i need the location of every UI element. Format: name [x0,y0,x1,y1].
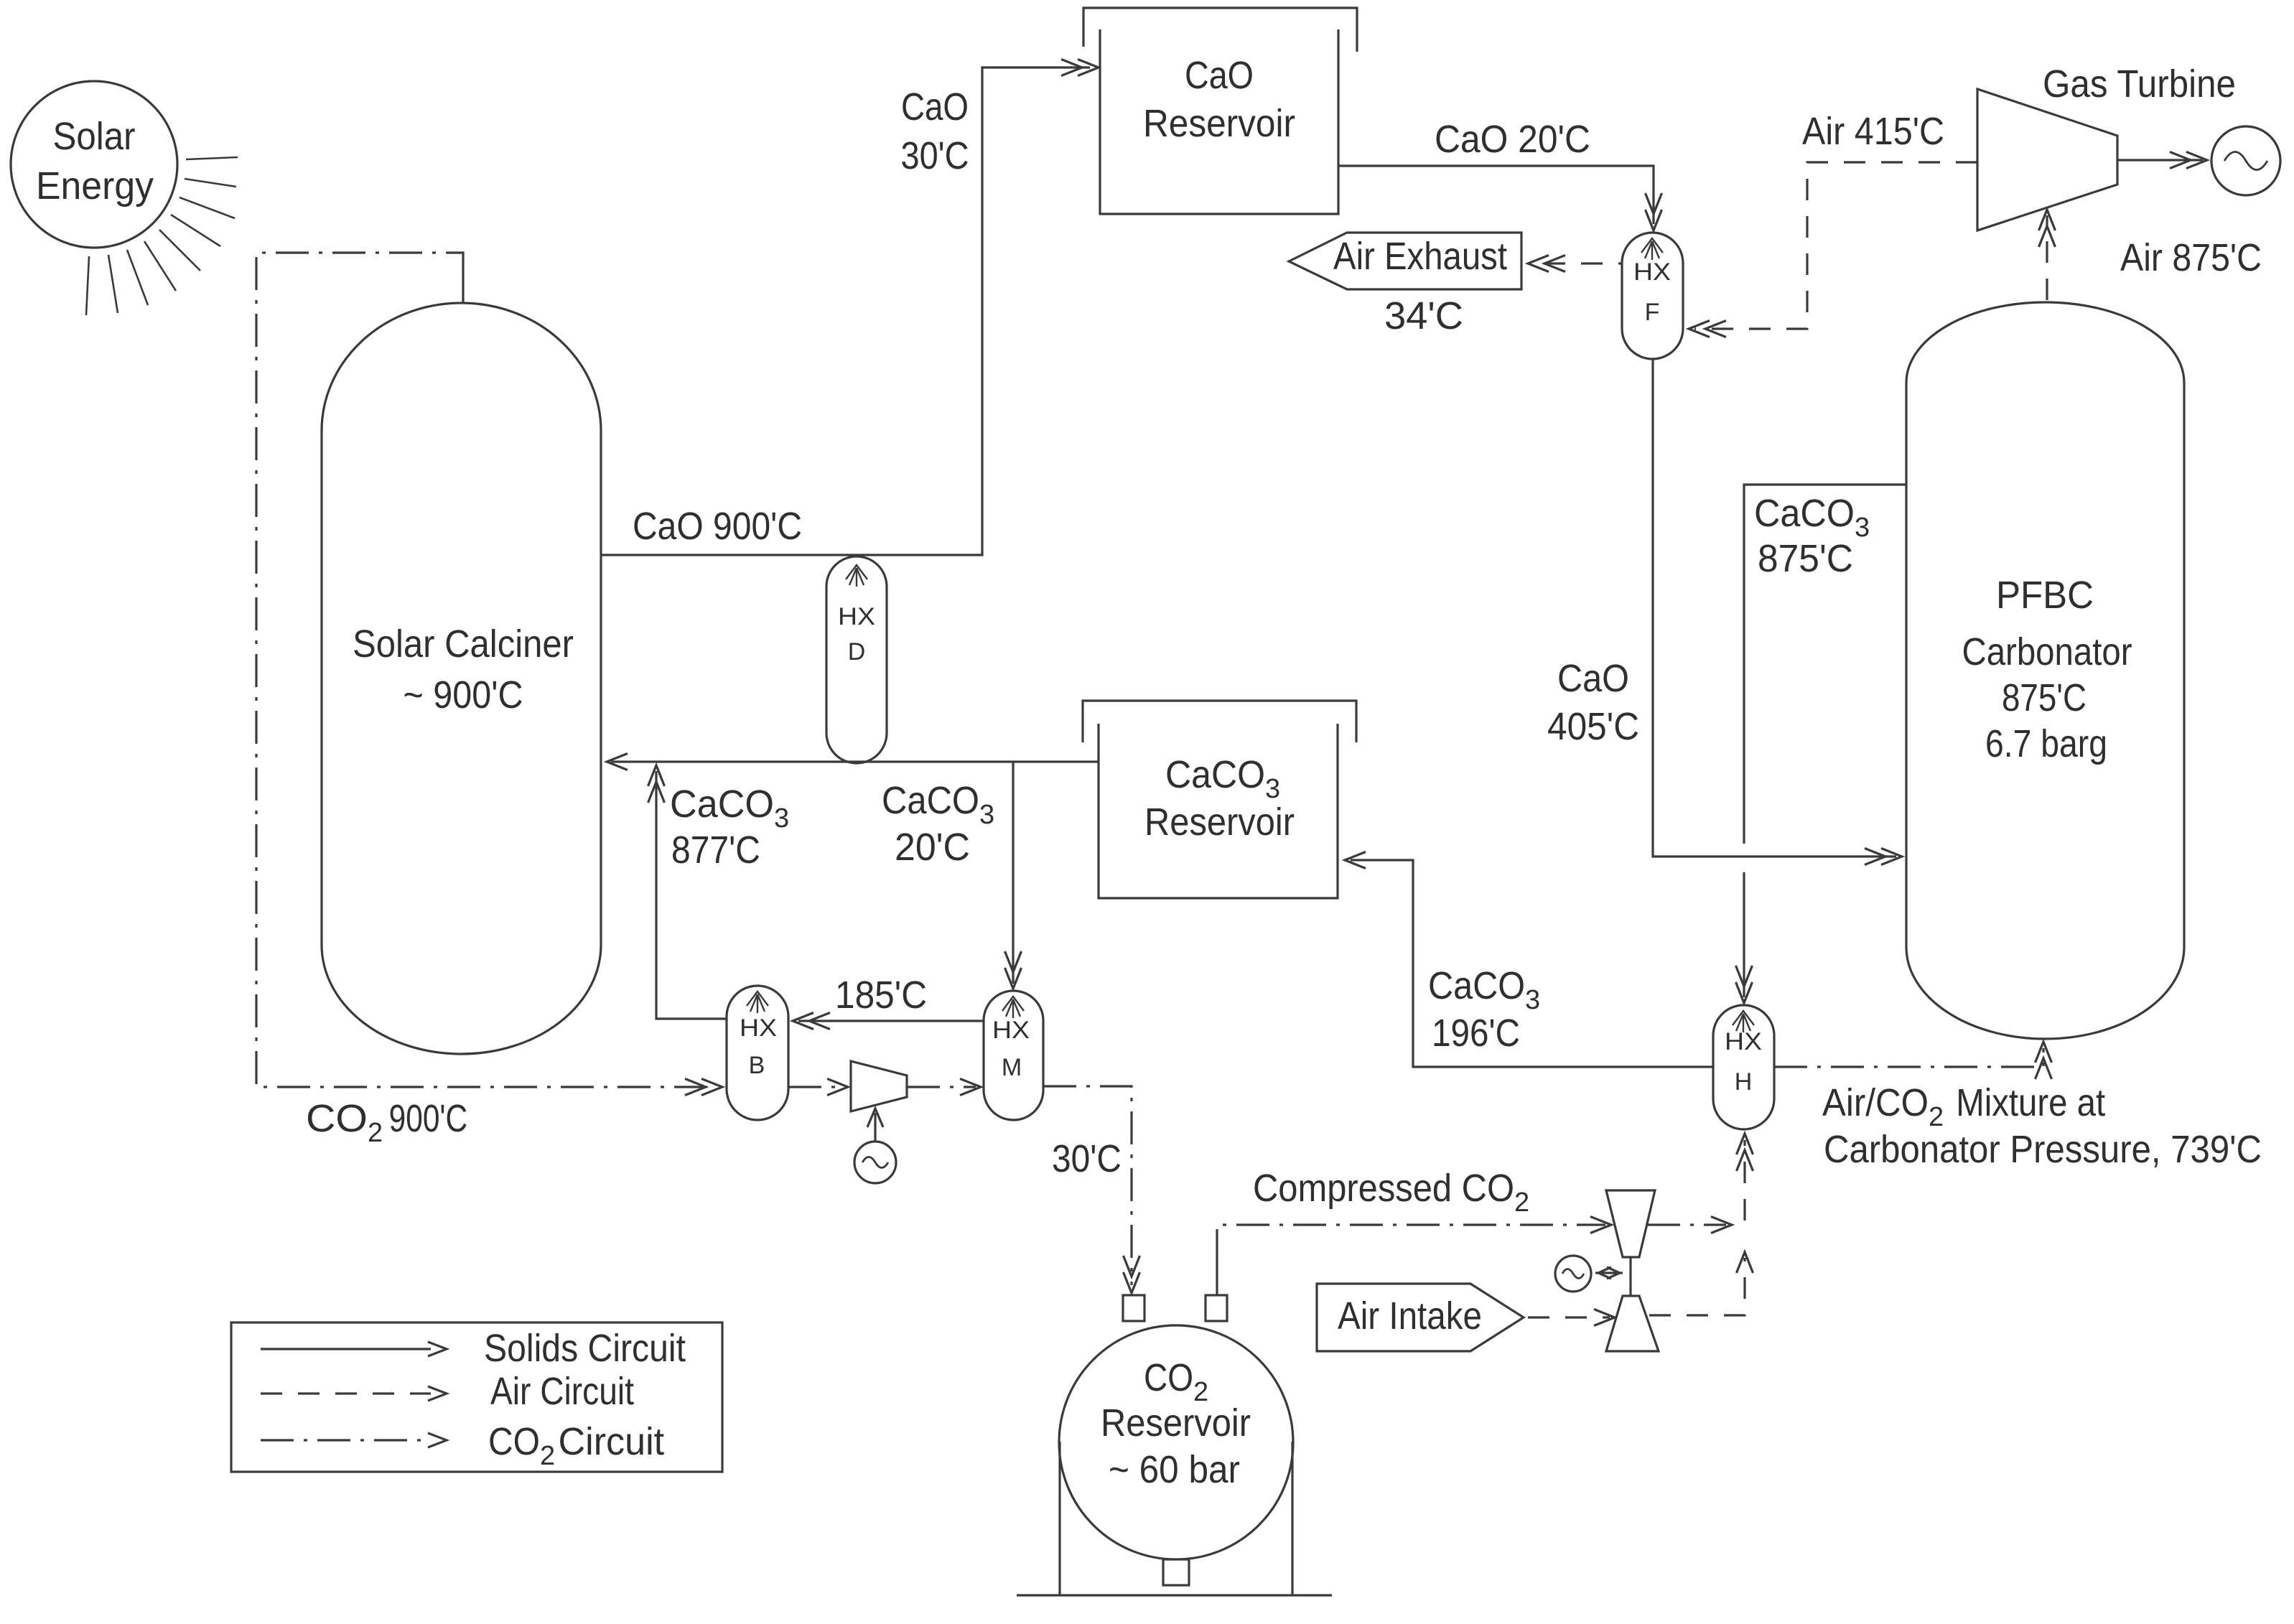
svg-text:875'C: 875'C [2002,676,2086,719]
svg-text:~ 900'C: ~ 900'C [404,673,523,717]
svg-text:PFBC: PFBC [1996,574,2094,617]
wire: CO2 dash-dot HX B to compressor [788,1086,843,1088]
wire: CO2 900'C dash-dot line calciner top to HX B [462,269,464,302]
wire: CaCO3 196'C line HX H to CaCO3 reservoir [1351,860,1713,1067]
turbine shaft to generator [2117,159,2203,161]
svg-text:Air 875'C: Air 875'C [2120,236,2262,279]
CaCO3 reservoir [1083,701,1356,742]
svg-text:196'C: 196'C [1432,1012,1520,1055]
svg-text:CaO: CaO [901,85,969,129]
svg-text:HX: HX [838,603,875,630]
wire: 185'C line HX M to HX B [798,1019,984,1022]
svg-text:30'C: 30'C [901,134,969,177]
wire: CaO 20'C line reservoir to HX F [1338,166,1654,224]
svg-text:877'C: 877'C [671,829,760,872]
CO2 reservoir [1059,1325,1293,1559]
svg-text:M: M [1002,1054,1022,1081]
CO2 compressor K1 [851,1061,907,1111]
wire: CO2 30'C dash-dot HX M to CO2 reservoir [1043,1086,1132,1285]
wire: CaO 405'C line HX F to carbonator [1653,359,1896,857]
wire: Air 875'C dashed line carbonator to turbine [2046,215,2048,300]
svg-text:Energy: Energy [36,164,154,207]
svg-text:Solids Circuit: Solids Circuit [484,1327,686,1370]
air compressor K3 [1606,1296,1659,1351]
CO2 reservoir stand [1058,1442,1060,1595]
wire: CaCO3 20'C line reservoir to calciner with branch to HX M [611,760,1099,762]
legend solids circuit [261,1348,431,1350]
generator G2 [854,1142,896,1183]
wire: shaft double arrow [1595,1271,1623,1274]
wire: CaCO3 877'C line HX B to calciner line [656,771,727,1019]
sun rays [186,157,238,159]
generator G1 [2211,126,2280,195]
svg-text:HX: HX [740,1014,777,1042]
heat exchanger HX F [1622,233,1683,359]
svg-text:CaO: CaO [1557,657,1629,700]
wire: air exhaust dashed line from HX F [1544,262,1622,264]
svg-text:20'C: 20'C [895,826,970,869]
compressor shaft [1629,1257,1631,1296]
svg-text:405'C: 405'C [1547,705,1639,748]
PFBC carbonator vessel [1906,302,2184,1039]
air intake flag [1317,1284,1524,1351]
wire: CaO 900'C line calciner to CaO reservoir [601,67,1090,555]
CaO reservoir [1083,8,1357,52]
svg-text:875'C: 875'C [1758,537,1853,580]
svg-text:Carbonator Pressure, 739'C: Carbonator Pressure, 739'C [1824,1128,2262,1171]
svg-text:CaO 900'C: CaO 900'C [633,505,802,548]
svg-text:Reservoir: Reservoir [1144,801,1295,844]
svg-text:Air Exhaust: Air Exhaust [1333,235,1507,278]
svg-text:Reservoir: Reservoir [1101,1401,1251,1445]
svg-text:6.7 barg: 6.7 barg [1985,722,2107,765]
svg-text:30'C: 30'C [1052,1137,1122,1180]
heat exchanger HX H [1713,1005,1774,1129]
legend air circuit [261,1392,431,1394]
CO2 reservoir nozzles [1123,1295,1144,1321]
svg-text:Reservoir: Reservoir [1143,102,1295,145]
sun: Solar Energy source [11,81,177,248]
heat exchanger HX M [984,991,1043,1120]
svg-text:Air Intake: Air Intake [1338,1294,1482,1338]
svg-text:CaO: CaO [1185,54,1254,97]
wire: air dashed line compressor to junction and up [1649,1258,1745,1315]
svg-text:D: D [848,638,866,666]
legend CO2 circuit [261,1439,431,1441]
solar calciner vessel [322,303,601,1054]
wire: CaCO3 875'C line carbonator to HX H [1744,485,1906,844]
svg-text:F: F [1645,299,1660,326]
svg-text:Gas Turbine: Gas Turbine [2043,62,2236,106]
legend box [231,1322,722,1472]
svg-text:HX: HX [1633,258,1671,286]
gas turbine [1977,89,2117,230]
svg-text:H: H [1735,1068,1753,1096]
wire: generator shaft arrow [874,1113,876,1142]
svg-text:Air Circuit: Air Circuit [490,1370,634,1413]
svg-text:Air 415'C: Air 415'C [1802,110,1944,153]
svg-text:185'C: 185'C [835,974,927,1017]
svg-text:~ 60 bar: ~ 60 bar [1109,1448,1240,1491]
wire: air/CO2 mixture dash-dot HX H to carbonator bottom [1774,1048,2043,1067]
svg-text:Solar: Solar [53,115,136,158]
wire: compressed CO2 dash-dot to junction [1647,1223,1726,1226]
wire: combined air/CO2 dashed line up to HX H [1743,1140,1745,1221]
svg-text:Carbonator: Carbonator [1962,630,2132,673]
svg-text:HX: HX [1725,1028,1762,1055]
wire: compressed CO2 line reservoir to booster [1216,1262,1218,1295]
svg-text:Solar Calciner: Solar Calciner [353,622,574,666]
svg-text:34'C: 34'C [1384,294,1463,337]
svg-text:B: B [749,1052,765,1079]
wire: Air 415'C dashed line turbine to HX F [1694,162,1977,329]
heat exchanger HX D [826,556,887,763]
air exhaust flag [1289,233,1521,289]
svg-text:HX: HX [992,1017,1030,1044]
wire: air intake dashed line to compressor [1528,1316,1610,1318]
wire: CO2 dash-dot compressor to HX M [907,1086,976,1088]
CO2 booster compressor K2 [1606,1190,1655,1257]
svg-text:CaO 20'C: CaO 20'C [1435,118,1590,161]
heat exchanger HX B [727,986,788,1120]
generator G3 [1555,1256,1591,1292]
